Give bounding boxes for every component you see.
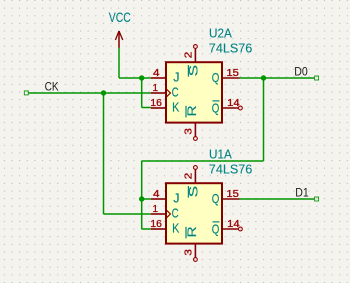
svg-text:Q: Q [212, 101, 220, 115]
svg-text:16: 16 [150, 219, 162, 230]
svg-text:Q: Q [212, 71, 220, 85]
svg-text:3: 3 [184, 128, 195, 135]
svg-text:C: C [172, 207, 179, 221]
svg-text:J: J [173, 71, 179, 85]
svg-text:K: K [172, 222, 180, 236]
svg-text:C: C [172, 86, 179, 100]
svg-text:2: 2 [183, 51, 194, 58]
svg-text:D0: D0 [294, 65, 308, 79]
svg-text:VCC: VCC [109, 9, 131, 25]
svg-text:4: 4 [153, 68, 160, 79]
svg-text:4: 4 [153, 189, 160, 200]
svg-text:J: J [173, 192, 179, 206]
svg-text:Q: Q [212, 222, 220, 236]
svg-text:74LS76: 74LS76 [209, 161, 253, 176]
svg-text:15: 15 [226, 68, 239, 79]
svg-text:R: R [185, 105, 199, 116]
svg-text:14: 14 [227, 219, 240, 230]
svg-text:1: 1 [152, 83, 158, 94]
svg-text:Q: Q [212, 192, 220, 206]
svg-text:14: 14 [227, 98, 240, 109]
svg-text:2: 2 [183, 172, 194, 179]
svg-text:S: S [188, 186, 201, 198]
svg-text:D1: D1 [295, 186, 309, 200]
svg-text:U2A: U2A [209, 27, 232, 41]
svg-text:1: 1 [152, 204, 158, 215]
svg-text:3: 3 [184, 249, 195, 256]
svg-text:S: S [188, 65, 201, 77]
svg-text:74LS76: 74LS76 [209, 40, 253, 55]
svg-text:CK: CK [45, 79, 59, 93]
svg-text:K: K [172, 101, 180, 115]
svg-text:16: 16 [150, 98, 162, 109]
svg-text:15: 15 [226, 189, 239, 200]
svg-text:U1A: U1A [209, 148, 232, 162]
svg-text:R: R [185, 226, 199, 237]
